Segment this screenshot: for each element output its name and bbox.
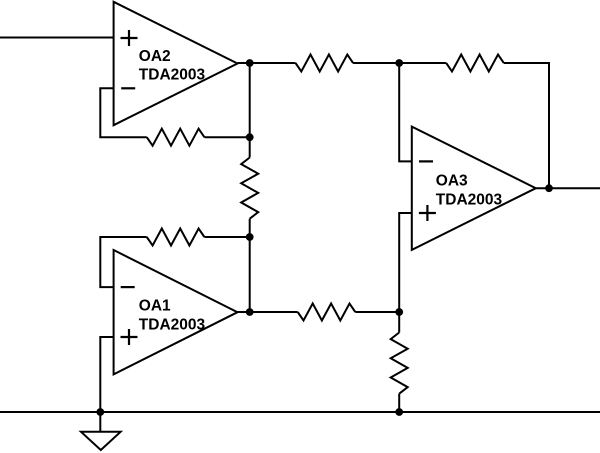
svg-text:OA2: OA2	[139, 48, 171, 65]
wire: OA1 inverting input feedback stub	[100, 237, 147, 287]
wire: ground stub	[99, 412, 101, 432]
wire: OA1 output to resistor	[238, 311, 298, 313]
wire: OA3 output to right edge	[536, 187, 600, 189]
op-amp OA3 triangle	[412, 127, 536, 250]
svg-text:OA3: OA3	[436, 173, 468, 190]
wire: resistor to node D and down to node E	[249, 219, 251, 312]
wire: OA2 inverting input feedback stub	[100, 88, 147, 137]
svg-text:TDA2003: TDA2003	[139, 67, 206, 84]
svg-text:TDA2003: TDA2003	[139, 316, 206, 333]
resistor: OA2 feedback	[147, 129, 205, 146]
wire: OA1 non-inverting input to ground bus	[100, 337, 113, 412]
resistor: OA2 output to node C	[296, 55, 354, 72]
wire: OA2 feedback resistor to node B	[204, 136, 249, 138]
node G junction (OA3 output)	[545, 184, 553, 192]
OA2 inverting input - symbol	[121, 87, 135, 89]
wire: node C down to OA3 inverting input	[399, 63, 412, 161]
resistor: OA1 output to node F	[298, 304, 356, 321]
wire: OA1 feedback resistor to node D	[204, 236, 249, 238]
OA3 non-inverting input + symbol	[419, 205, 436, 221]
wire: input signal to OA2 +	[0, 37, 114, 39]
resistor: OA3 feedback	[446, 55, 504, 72]
OA3 inverting input - symbol	[419, 160, 433, 162]
svg-text:TDA2003: TDA2003	[436, 191, 503, 208]
op-amp OA1 triangle	[114, 250, 238, 374]
node A junction (OA2 output)	[246, 59, 254, 67]
ground symbol	[81, 432, 121, 450]
ground junction at OA1 +	[96, 408, 104, 416]
resistor: node F to ground (vertical)	[391, 333, 408, 394]
wire: OA3 non-inverting input stub down to node F	[399, 213, 412, 333]
op-amp OA2 triangle	[114, 2, 238, 125]
wire: resistor to ground bus	[398, 394, 400, 412]
OA2 non-inverting input + symbol	[121, 30, 138, 46]
wire: OA3 feedback resistor to OA3 output	[504, 63, 549, 188]
node B junction (OA2 feedback)	[246, 133, 254, 141]
wire: resistor to node C	[353, 62, 446, 64]
resistor: between node B and node D (vertical)	[241, 158, 258, 219]
wire: OA2 output to resistor	[238, 62, 296, 64]
node F junction	[395, 308, 403, 316]
wire: node A to node B (vertical)	[249, 63, 251, 158]
OA1 non-inverting input + symbol	[121, 329, 138, 345]
node E junction (OA1 output)	[246, 308, 254, 316]
wire: ground bus	[0, 411, 600, 413]
svg-text:OA1: OA1	[139, 298, 171, 315]
OA1 inverting input - symbol	[121, 286, 135, 288]
resistor: OA1 feedback	[147, 229, 205, 246]
ground junction at node F resistor	[395, 408, 403, 416]
node D junction (OA1 feedback)	[246, 233, 254, 241]
wire: resistor to node F	[355, 311, 399, 313]
node C junction	[395, 59, 403, 67]
